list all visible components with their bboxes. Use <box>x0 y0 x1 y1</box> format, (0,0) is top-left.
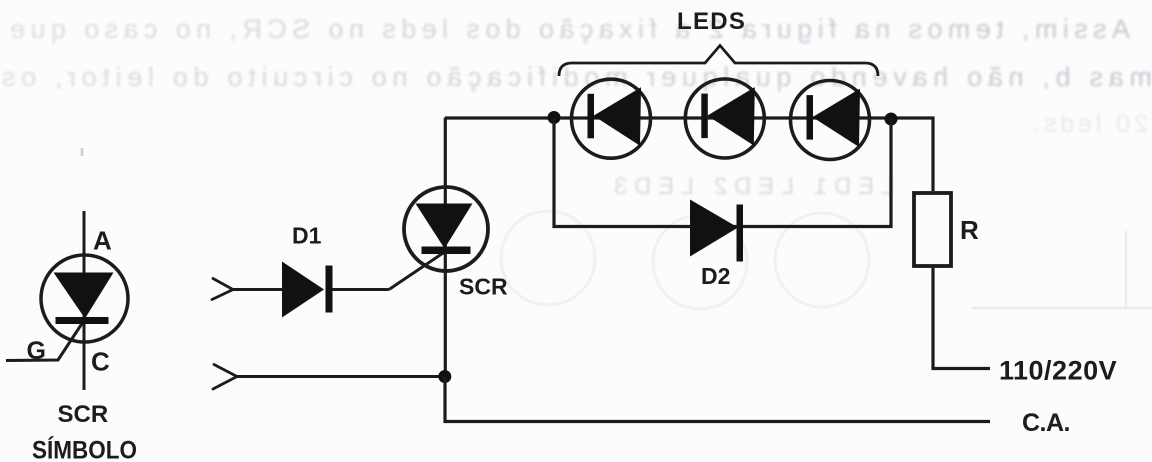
svg-text:SÍMBOLO: SÍMBOLO <box>32 436 137 462</box>
svg-text:R: R <box>960 215 979 245</box>
svg-text:C: C <box>91 347 110 377</box>
svg-text:mas b, não havendo qualquer mo: mas b, não havendo qualquer modificação … <box>2 62 1152 92</box>
svg-text:LEDS: LEDS <box>677 8 746 35</box>
svg-text:G: G <box>27 337 46 365</box>
svg-text:SCR: SCR <box>58 401 109 428</box>
svg-text:C.A.: C.A. <box>1022 409 1070 437</box>
svg-text:SCR: SCR <box>459 274 508 300</box>
svg-text:D2: D2 <box>701 263 730 289</box>
svg-text:A: A <box>93 226 112 256</box>
svg-text:20 leds.: 20 leds. <box>1033 110 1148 138</box>
svg-text:110/220V: 110/220V <box>999 356 1117 386</box>
svg-text:D1: D1 <box>292 223 322 249</box>
svg-text:Assim, temos na figura 2 a fix: Assim, temos na figura 2 a fixação dos l… <box>10 14 1130 44</box>
